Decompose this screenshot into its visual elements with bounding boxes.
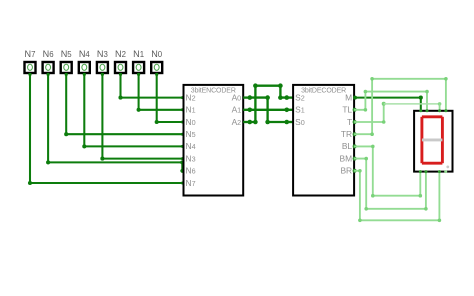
svg-text:BR: BR <box>340 166 352 176</box>
seven segment display showing 0 <box>414 109 452 173</box>
svg-text:TL: TL <box>342 105 352 115</box>
input pin N5 value 0 <box>61 49 73 73</box>
input pin N6 value 0 <box>43 49 55 73</box>
wire N3 input to encoder pin <box>100 73 184 161</box>
svg-text:BM: BM <box>340 153 353 163</box>
wire BM to display d pin <box>353 157 428 211</box>
wire N4 input to encoder pin <box>82 73 184 149</box>
svg-text:N4: N4 <box>79 49 91 59</box>
svg-text:S0: S0 <box>295 117 305 127</box>
svg-text:3bitDECODER: 3bitDECODER <box>301 87 346 94</box>
wire N0 input to encoder pin <box>155 73 184 124</box>
svg-text:TR: TR <box>341 129 352 139</box>
input pin N2 value 0 <box>115 49 126 73</box>
wire N5 input to encoder pin <box>64 73 184 136</box>
svg-text:3bitENCODER: 3bitENCODER <box>191 87 236 94</box>
svg-text:N2: N2 <box>186 92 196 102</box>
svg-text:T: T <box>347 117 352 127</box>
svg-text:N3: N3 <box>97 49 109 59</box>
wire N6 input to encoder pin <box>46 73 184 173</box>
svg-text:N7: N7 <box>186 178 196 188</box>
wire N7 input to encoder pin <box>28 73 184 185</box>
svg-text:S1: S1 <box>295 105 305 115</box>
subcircuit U1 3bitENCODER <box>184 85 244 196</box>
subcircuit U2 3bitDECODER <box>293 85 354 196</box>
input pin N7 value 0 <box>25 49 36 73</box>
input pin N1 value 0 <box>133 49 144 73</box>
svg-text:N6: N6 <box>186 166 196 176</box>
wire BR to display c pin <box>353 169 442 222</box>
svg-text:M: M <box>345 92 352 102</box>
display dp pin unconnected <box>444 170 447 173</box>
wire A0 to S0 <box>243 95 293 124</box>
wire N2 input to encoder pin <box>118 73 183 100</box>
svg-text:N6: N6 <box>43 49 55 59</box>
wire TL to display f pin <box>353 90 429 112</box>
svg-text:S2: S2 <box>295 92 305 102</box>
svg-text:N1: N1 <box>133 49 144 59</box>
svg-text:N7: N7 <box>25 49 36 59</box>
input pin N4 value 0 <box>79 49 91 73</box>
svg-text:A2: A2 <box>232 117 242 127</box>
wire A2 to S2 <box>243 83 293 124</box>
svg-text:N0: N0 <box>151 49 163 59</box>
svg-text:N0: N0 <box>186 117 196 127</box>
input pin N0 value 0 <box>151 49 163 73</box>
wire T to display a pin <box>353 102 442 124</box>
wire BL to display e pin <box>353 144 423 197</box>
svg-text:A1: A1 <box>232 105 242 115</box>
svg-text:BL: BL <box>342 141 353 151</box>
svg-text:N1: N1 <box>186 105 196 115</box>
svg-text:A0: A0 <box>232 92 242 102</box>
input pin N3 value 0 <box>97 49 109 73</box>
wire M (middle seg, low) to display g pin <box>353 96 423 111</box>
wire A1 to S1 <box>243 108 293 113</box>
wire TR to display b pin <box>353 77 448 136</box>
svg-text:N4: N4 <box>186 141 196 151</box>
wire N1 input to encoder pin <box>137 73 184 112</box>
svg-text:N2: N2 <box>115 49 126 59</box>
svg-text:N3: N3 <box>186 153 196 163</box>
svg-text:N5: N5 <box>61 49 73 59</box>
svg-text:N5: N5 <box>186 129 196 139</box>
